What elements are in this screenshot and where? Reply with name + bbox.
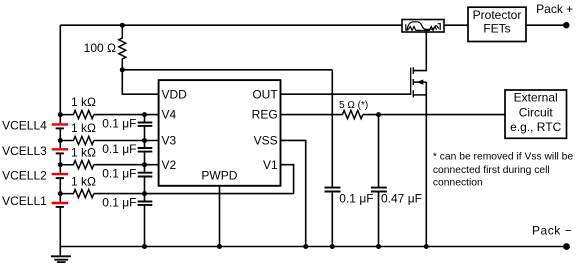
svg-text:5 Ω (*): 5 Ω (*) bbox=[339, 100, 368, 111]
svg-text:100 Ω: 100 Ω bbox=[84, 41, 116, 55]
wire bottom bus bbox=[60, 246, 566, 248]
node top bus / 100 ohm bbox=[120, 23, 125, 28]
svg-text:OUT: OUT bbox=[252, 87, 278, 101]
node bus FET source bbox=[424, 244, 429, 249]
resistor R 100 ohm bbox=[119, 25, 126, 70]
wire REG row left of resistor bbox=[281, 114, 343, 116]
svg-text:PWPD: PWPD bbox=[201, 168, 237, 182]
svg-text:External: External bbox=[514, 91, 558, 105]
capacitor C5 0.1uF (VDD bypass) bbox=[325, 188, 341, 192]
resistor R3 1k (VCELL2) bbox=[60, 161, 94, 169]
svg-text:V3: V3 bbox=[162, 134, 177, 148]
svg-text:1 kΩ: 1 kΩ bbox=[71, 121, 96, 135]
capacitor C3 0.1uF (V3-V2) bbox=[138, 148, 153, 152]
transistor Q1 (pack FET) bbox=[411, 67, 427, 97]
wire VDD node down to VDD pin bbox=[122, 70, 158, 94]
svg-text:VDD: VDD bbox=[162, 87, 188, 101]
node rail V2 bbox=[58, 162, 63, 167]
wire fuse to protector box bbox=[444, 24, 468, 26]
svg-text:connected first during cell: connected first during cell bbox=[433, 165, 550, 176]
svg-text:FETs: FETs bbox=[483, 22, 510, 36]
battery cell VCELL2 bbox=[52, 174, 68, 178]
protector FETs box bbox=[468, 7, 526, 41]
svg-text:0.1 μF: 0.1 μF bbox=[339, 191, 373, 205]
wire input cap rail bbox=[144, 115, 146, 247]
node rail V4 bbox=[58, 112, 63, 117]
svg-text:0.1 μF: 0.1 μF bbox=[102, 116, 136, 130]
node caprail V2 bbox=[142, 162, 147, 167]
wire top bus bbox=[60, 24, 402, 26]
node VDD bbox=[120, 67, 125, 72]
wire FET source to bottom bus bbox=[425, 82, 427, 246]
wire V1 pin loop bbox=[281, 165, 294, 194]
wire V4 row bbox=[94, 114, 159, 116]
IC U1 bbox=[159, 80, 281, 186]
node rail V3 bbox=[58, 138, 63, 143]
battery cell VCELL3 bbox=[52, 149, 68, 153]
wire V3 row bbox=[94, 140, 159, 142]
resistor R2 1k (VCELL3) bbox=[60, 136, 94, 144]
svg-text:e.g., RTC: e.g., RTC bbox=[510, 120, 561, 134]
battery cell VCELL4 bbox=[52, 124, 68, 128]
ground bbox=[51, 256, 71, 262]
svg-text:REG: REG bbox=[252, 108, 278, 122]
external circuit box bbox=[505, 90, 567, 138]
wire V1 return row bbox=[94, 193, 294, 195]
svg-text:V4: V4 bbox=[162, 108, 177, 122]
wire PWPD to bottom bus bbox=[219, 186, 221, 247]
wire VDD node to C5 rail bbox=[122, 69, 332, 71]
node bus caprail bbox=[142, 244, 147, 249]
svg-text:1 kΩ: 1 kΩ bbox=[71, 95, 96, 109]
svg-text:Pack +: Pack + bbox=[536, 2, 573, 16]
svg-text:0.1 μF: 0.1 μF bbox=[102, 142, 136, 156]
resistor R4 1k (VCELL1) bbox=[60, 190, 94, 198]
node caprail V3 bbox=[142, 138, 147, 143]
wire C6 rail bbox=[378, 115, 380, 247]
svg-text:V1: V1 bbox=[263, 158, 278, 172]
wire left cell rail bbox=[59, 25, 61, 256]
node bus VSS bbox=[303, 244, 308, 249]
node bus C5 bbox=[330, 244, 335, 249]
resistor R5 5 ohm bbox=[342, 111, 362, 119]
transistor Q1 body arrow bbox=[416, 80, 423, 85]
node REG cap bbox=[376, 112, 381, 117]
svg-text:Pack −: Pack − bbox=[532, 224, 572, 238]
resistor R1 1k (VCELL4) bbox=[60, 111, 94, 119]
svg-text:VSS: VSS bbox=[254, 134, 278, 148]
svg-text:0.1 μF: 0.1 μF bbox=[102, 195, 136, 209]
svg-text:1 kΩ: 1 kΩ bbox=[71, 145, 96, 159]
svg-text:* can be removed if Vss will b: * can be removed if Vss will be bbox=[433, 152, 573, 163]
svg-text:1 kΩ: 1 kΩ bbox=[71, 174, 96, 188]
capacitor C6 0.47uF (REG) bbox=[371, 188, 387, 192]
svg-text:V2: V2 bbox=[162, 158, 177, 172]
svg-text:0.1 μF: 0.1 μF bbox=[102, 167, 136, 181]
svg-text:connection: connection bbox=[433, 178, 483, 189]
wire V2 row bbox=[94, 164, 159, 166]
terminal Pack- bbox=[563, 243, 570, 250]
wire C5 rail bbox=[331, 70, 333, 247]
wire REG node to external box bbox=[363, 114, 505, 116]
capacitor C2 0.1uF (V2-V1) bbox=[138, 173, 153, 177]
svg-text:VCELL1: VCELL1 bbox=[2, 194, 47, 208]
capacitor C4 0.1uF (V4-V3) bbox=[138, 123, 153, 126]
node rail V1 bbox=[58, 191, 63, 196]
node bus PWPD bbox=[217, 244, 222, 249]
wire protector box to Pack+ bbox=[526, 24, 566, 26]
capacitor C1 0.1uF (V1-gnd) bbox=[138, 202, 153, 205]
svg-text:Circuit: Circuit bbox=[519, 105, 554, 119]
wire fuse tap to FET drain bbox=[413, 30, 426, 70]
svg-text:VCELL2: VCELL2 bbox=[2, 169, 47, 183]
node caprail V4 bbox=[142, 112, 147, 117]
wire OUT to gate bbox=[281, 93, 411, 95]
node bus C6 bbox=[376, 244, 381, 249]
wire VSS to bottom bus bbox=[281, 140, 306, 246]
battery cell VCELL1 bbox=[52, 203, 68, 207]
svg-text:0.47 μF: 0.47 μF bbox=[381, 191, 422, 205]
fuse F1 (self-control protector) bbox=[402, 20, 444, 33]
svg-text:VCELL3: VCELL3 bbox=[2, 144, 47, 158]
node caprail V1 bbox=[142, 191, 147, 196]
svg-text:VCELL4: VCELL4 bbox=[2, 119, 47, 133]
terminal Pack+ bbox=[563, 22, 569, 28]
svg-text:Protector: Protector bbox=[473, 8, 522, 22]
